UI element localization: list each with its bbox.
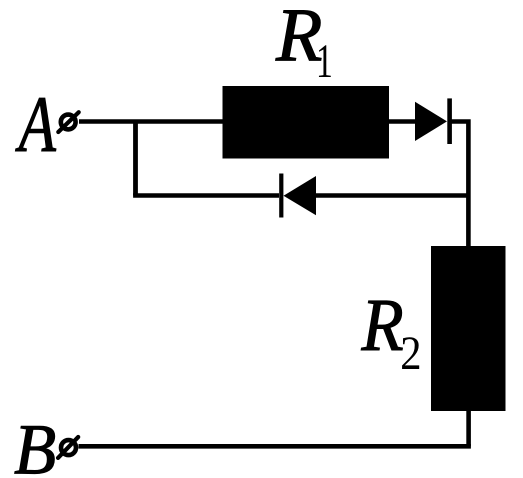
wire junction down from node A branch — [133, 122, 138, 196]
label R2 subscript 2 — [402, 337, 419, 369]
wire lower branch left segment — [133, 193, 279, 198]
terminal B (circle with slash) — [58, 437, 78, 458]
terminal label A — [15, 98, 56, 151]
wire A to R1 — [79, 119, 224, 124]
wire D1 to right corner, down to R2 — [451, 122, 468, 247]
terminal A (circle with slash) — [58, 112, 78, 132]
resistor R2 — [431, 246, 506, 411]
wire R1 to diode D1 — [389, 119, 417, 124]
label R1 letter — [276, 11, 322, 61]
resistor R1 — [223, 86, 390, 159]
wire lower branch right segment to vertical — [316, 193, 468, 198]
label R2 letter — [361, 301, 402, 350]
label R1 subscript 1 — [319, 45, 331, 77]
wire B horizontal — [79, 444, 471, 449]
wire R2 bottom to node B wire — [466, 411, 471, 446]
diode D2 (points left) — [279, 174, 316, 218]
diode D1 (points right) — [415, 98, 452, 144]
terminal label B — [15, 426, 55, 473]
